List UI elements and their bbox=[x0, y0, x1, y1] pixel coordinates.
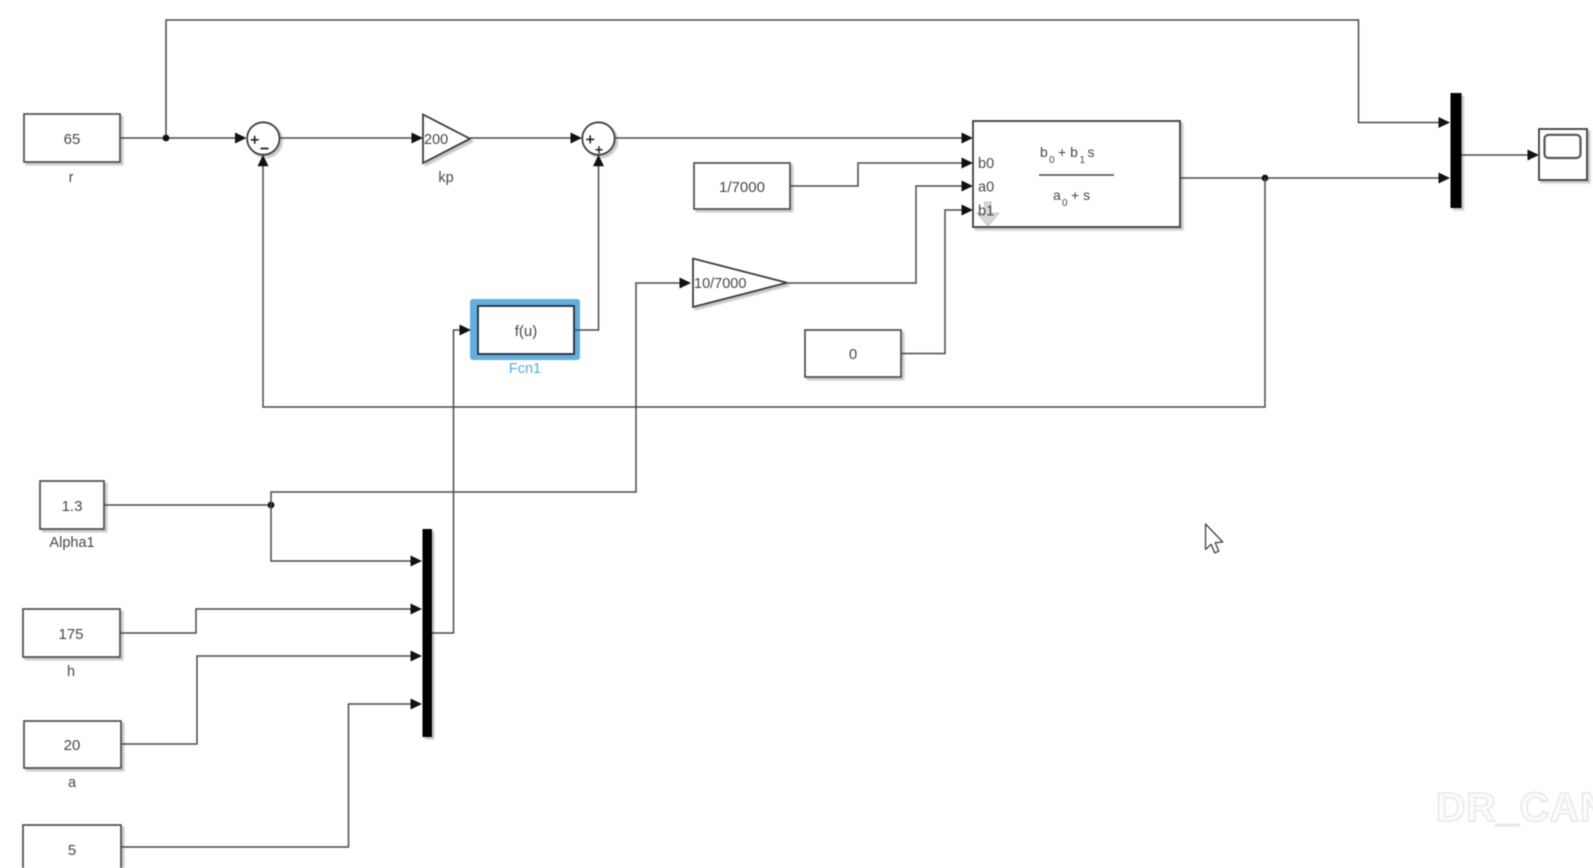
mux M1 bbox=[1451, 93, 1462, 208]
svg-text:1.3: 1.3 bbox=[62, 498, 83, 515]
arrowhead into port a0 bbox=[962, 181, 974, 192]
wire 65 to sum S1 bbox=[120, 137, 237, 139]
svg-text:a: a bbox=[1053, 187, 1061, 203]
node C junction dot bbox=[268, 502, 275, 509]
wire fcn output to sum S2 bottom bbox=[574, 164, 599, 330]
transfer fcn denominator a0 + s bbox=[1053, 187, 1090, 209]
arrowhead into mux M2 input 2 bbox=[411, 604, 423, 615]
wire node C down to mux M2 input 1 bbox=[271, 505, 413, 561]
svg-text:Fcn1: Fcn1 bbox=[509, 361, 541, 377]
svg-text:h: h bbox=[67, 664, 75, 680]
svg-text:1: 1 bbox=[1080, 155, 1086, 166]
svg-text:f(u): f(u) bbox=[515, 323, 538, 340]
svg-text:175: 175 bbox=[58, 626, 83, 643]
wire constant 0 to port b1 bbox=[901, 210, 964, 354]
arrowhead into mux M1 input 1 bbox=[1439, 117, 1451, 128]
svg-text:+ s: + s bbox=[1071, 187, 1090, 203]
wire 1.3 to node C bbox=[104, 504, 271, 506]
svg-text:0: 0 bbox=[1062, 198, 1068, 209]
constant a (20) bbox=[24, 721, 121, 768]
wire top feedback from node A to mux M1 input 1 bbox=[166, 20, 1441, 138]
arrowhead into gain G2 bbox=[680, 278, 692, 289]
arrowhead into sum S2 bbox=[571, 133, 583, 144]
wire sum S1 to gain kp bbox=[280, 137, 415, 139]
svg-text:a: a bbox=[68, 775, 77, 791]
constant r (65) bbox=[24, 114, 120, 162]
arrowhead into gain kp bbox=[412, 133, 424, 144]
constant Alpha1 (1.3) bbox=[40, 481, 104, 529]
gain G2 (10/7000) bbox=[693, 259, 787, 308]
svg-text:10/7000: 10/7000 bbox=[694, 276, 746, 292]
svg-text:+ b: + b bbox=[1058, 144, 1078, 160]
constant 0 bbox=[805, 330, 901, 377]
wire 20 to mux M2 input 3 bbox=[121, 656, 413, 744]
constant h (175) bbox=[23, 609, 120, 657]
transfer fcn fraction bar bbox=[1039, 174, 1114, 176]
svg-text:1/7000: 1/7000 bbox=[719, 179, 765, 196]
wire feedback node B to sum S1 bottom bbox=[263, 164, 1265, 407]
mux M2 bbox=[423, 529, 433, 737]
svg-text:b0: b0 bbox=[978, 156, 994, 172]
wire 175 to mux M2 input 2 bbox=[120, 609, 413, 633]
wire transfer fcn output to mux M1 input 2 bbox=[1180, 177, 1441, 179]
arrowhead into mux M2 input 4 bbox=[411, 699, 423, 710]
arrowhead into mux M2 input 3 bbox=[411, 651, 423, 662]
svg-text:s: s bbox=[1088, 144, 1095, 160]
transfer fcn numerator b0 + b1 s bbox=[1040, 144, 1095, 166]
node B junction dot bbox=[1262, 175, 1269, 182]
wire sum S2 to transfer fcn input 1 bbox=[615, 137, 964, 139]
svg-text:0: 0 bbox=[1049, 155, 1055, 166]
fcn block Fcn1 f(u) selected bbox=[470, 299, 580, 360]
wire 1/7000 to port b0 bbox=[790, 163, 964, 186]
svg-text:b1: b1 bbox=[978, 204, 994, 220]
sum S2 bbox=[582, 122, 614, 154]
arrowhead into port b1 bbox=[962, 205, 974, 216]
constant 5 bbox=[23, 825, 121, 868]
gray badge arrow on transfer fcn bbox=[977, 202, 999, 226]
wire mux M1 to scope bbox=[1462, 154, 1531, 156]
arrowhead up into sum S1 bbox=[258, 155, 269, 167]
wire mux M2 output to fcn input bbox=[432, 330, 462, 633]
mouse cursor bbox=[1206, 524, 1223, 553]
constant 1/7000 bbox=[694, 163, 790, 209]
svg-text:kp: kp bbox=[438, 170, 453, 186]
svg-text:200: 200 bbox=[424, 132, 448, 148]
svg-text:0: 0 bbox=[849, 346, 857, 363]
arrowhead into port b0 bbox=[962, 158, 974, 169]
arrowhead into transfer fcn input 1 bbox=[962, 133, 974, 144]
node A junction dot bbox=[163, 135, 170, 142]
arrowhead into mux M1 input 2 bbox=[1439, 173, 1451, 184]
arrowhead up into sum S2 bbox=[593, 155, 604, 167]
wire node C up to gain G2 input bbox=[271, 283, 681, 505]
arrowhead into mux M2 input 1 bbox=[411, 556, 423, 567]
svg-text:DR_CAN: DR_CAN bbox=[1436, 784, 1593, 830]
sum S1 bbox=[247, 122, 279, 154]
wire gain G2 to port a0 bbox=[787, 186, 964, 283]
svg-text:Alpha1: Alpha1 bbox=[49, 535, 94, 551]
wire 5 to mux M2 input 4 bbox=[121, 704, 413, 847]
gain kp (200) bbox=[423, 115, 470, 164]
transfer fcn U1 (b0+b1s)/(a0+s) bbox=[973, 121, 1180, 227]
arrowhead into fcn input bbox=[460, 325, 472, 336]
arrowhead into scope bbox=[1528, 150, 1540, 161]
scope bbox=[1539, 129, 1587, 180]
wire gain kp to sum S2 bbox=[470, 137, 572, 139]
svg-text:a0: a0 bbox=[978, 180, 994, 196]
svg-text:65: 65 bbox=[64, 131, 81, 148]
svg-text:r: r bbox=[69, 170, 74, 186]
svg-text:b: b bbox=[1040, 144, 1048, 160]
svg-text:5: 5 bbox=[68, 842, 76, 859]
arrowhead into sum S1 bbox=[235, 133, 247, 144]
svg-text:20: 20 bbox=[64, 737, 81, 754]
